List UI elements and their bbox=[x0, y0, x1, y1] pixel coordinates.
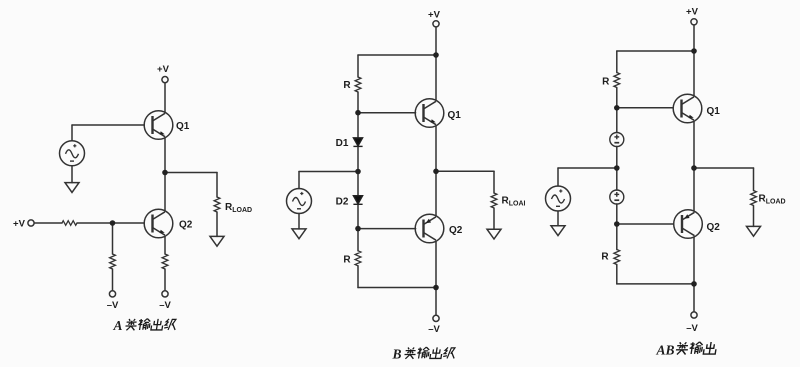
svg-text:AB: AB bbox=[656, 343, 675, 358]
svg-text:Q1: Q1 bbox=[448, 110, 462, 121]
svg-text:–V: –V bbox=[107, 300, 119, 311]
svg-text:Q1: Q1 bbox=[707, 106, 721, 117]
svg-text:+V: +V bbox=[157, 64, 170, 75]
svg-text:Q2: Q2 bbox=[707, 222, 721, 233]
svg-text:+V: +V bbox=[686, 7, 699, 18]
svg-text:Q2: Q2 bbox=[179, 220, 193, 231]
svg-text:+V: +V bbox=[428, 10, 441, 21]
svg-text:Q1: Q1 bbox=[176, 121, 190, 132]
svg-text:Q2: Q2 bbox=[449, 225, 463, 236]
svg-text:D1: D1 bbox=[336, 138, 349, 149]
svg-text:+V: +V bbox=[13, 219, 26, 230]
svg-text:D2: D2 bbox=[336, 197, 349, 208]
svg-text:R: R bbox=[602, 77, 610, 88]
svg-text:–V: –V bbox=[428, 324, 440, 335]
svg-text:A: A bbox=[113, 318, 123, 333]
svg-text:–V: –V bbox=[159, 300, 171, 311]
svg-text:B: B bbox=[392, 347, 402, 362]
svg-text:R: R bbox=[601, 252, 609, 263]
svg-text:R: R bbox=[343, 80, 351, 91]
svg-text:R: R bbox=[343, 255, 351, 266]
svg-text:–V: –V bbox=[686, 323, 698, 334]
